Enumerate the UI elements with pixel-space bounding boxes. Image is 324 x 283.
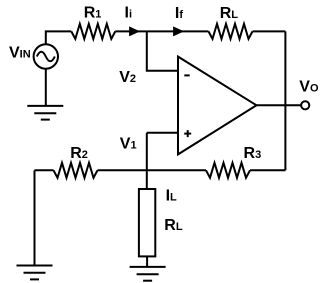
wire right rail <box>284 31 286 170</box>
wire RL to right rail <box>253 30 286 32</box>
output terminal VO <box>301 101 309 109</box>
svg-text:IL: IL <box>166 188 177 205</box>
svg-text:If: If <box>175 5 183 22</box>
resistor RL load <box>139 189 155 256</box>
svg-text:RL: RL <box>220 5 239 22</box>
svg-text:R2: R2 <box>70 145 88 162</box>
svg-text:RL: RL <box>164 217 183 234</box>
resistor RL feedback <box>209 24 253 39</box>
svg-text:VO: VO <box>299 79 319 96</box>
ground left <box>17 266 53 280</box>
svg-text:V2: V2 <box>119 69 136 86</box>
svg-text:R3: R3 <box>244 145 262 162</box>
svg-text:Ii: Ii <box>125 4 133 21</box>
ground load <box>130 267 166 281</box>
svg-text:V1: V1 <box>120 135 137 152</box>
svg-text:VIN: VIN <box>9 45 31 62</box>
op-amp U1 <box>178 57 257 155</box>
wire bottom rail left <box>35 169 54 171</box>
voltage source VIN <box>34 44 58 68</box>
current arrow If <box>174 27 183 35</box>
current arrow Ii <box>130 27 139 35</box>
wire node V1 to non-inverting input <box>147 132 178 134</box>
wire R3 to right rail <box>250 169 285 171</box>
wire top junction to RL <box>147 30 209 32</box>
wire node V1 to R3 <box>147 169 206 171</box>
resistor R1 <box>71 24 115 39</box>
ground VIN <box>27 106 63 120</box>
wire R1 to top junction <box>115 30 147 32</box>
wire op-amp output <box>257 104 302 106</box>
wire left branch to ground <box>34 170 36 265</box>
svg-text:R1: R1 <box>84 5 102 22</box>
wire VIN to ground <box>45 69 47 106</box>
wire node V2 to inverting input <box>147 31 178 70</box>
wire node V1 down to load <box>146 133 148 189</box>
wire load to ground <box>146 256 148 267</box>
resistor R2 <box>54 163 98 178</box>
resistor R3 <box>206 163 250 178</box>
wire VIN top to R1 <box>46 31 72 44</box>
wire R2 to node V1 <box>98 169 147 171</box>
